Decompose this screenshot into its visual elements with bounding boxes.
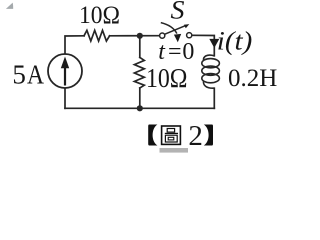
svg-text:0: 0 xyxy=(182,39,194,65)
svg-text:i(t): i(t) xyxy=(217,27,253,56)
svg-text:A: A xyxy=(27,59,44,89)
svg-text:10Ω: 10Ω xyxy=(79,2,120,29)
wire top-left segment xyxy=(65,36,84,54)
junction node bottom xyxy=(137,105,143,111)
svg-text:0.2: 0.2 xyxy=(228,65,259,92)
caption CJK character tu (figure) xyxy=(162,126,181,144)
caption bracket left xyxy=(148,125,157,146)
wire coil bottom down xyxy=(213,88,215,108)
switch closing arc arrow xyxy=(161,23,177,34)
wire bottom xyxy=(65,107,214,109)
switch blade tip arrowhead xyxy=(184,24,189,28)
caption bracket right xyxy=(204,125,213,146)
svg-text:S: S xyxy=(171,0,185,25)
wire left bottom vertical xyxy=(64,88,66,108)
wire middle branch bottom xyxy=(139,88,141,108)
current source I1 5A circle xyxy=(48,54,82,88)
switch blade (open, tilted up) xyxy=(165,25,187,34)
switch S right terminal xyxy=(187,33,192,38)
i(t) current arrowhead xyxy=(209,39,219,48)
junction node top (between R1 and switch) xyxy=(137,33,143,39)
svg-text:10Ω: 10Ω xyxy=(146,63,188,93)
svg-text:5: 5 xyxy=(12,59,26,89)
switch closing arrowhead xyxy=(174,34,181,42)
wire resistor to switch xyxy=(110,35,160,37)
stray gray corner mark xyxy=(6,3,13,9)
resistor R1 10ohm horizontal zigzag xyxy=(84,30,110,41)
switch S left terminal xyxy=(160,33,165,38)
inductor L1 0.2H coil xyxy=(202,55,220,88)
wire switch to right corner xyxy=(192,35,215,41)
resistor R2 10ohm vertical zigzag xyxy=(134,57,144,88)
svg-text:H: H xyxy=(259,65,277,92)
caption gray underline smear xyxy=(160,148,189,153)
wire arrow to coil top xyxy=(213,47,215,56)
wire middle branch top xyxy=(139,36,141,58)
svg-text:=: = xyxy=(168,39,182,65)
current source arrow xyxy=(61,57,69,86)
svg-text:2: 2 xyxy=(188,120,203,152)
